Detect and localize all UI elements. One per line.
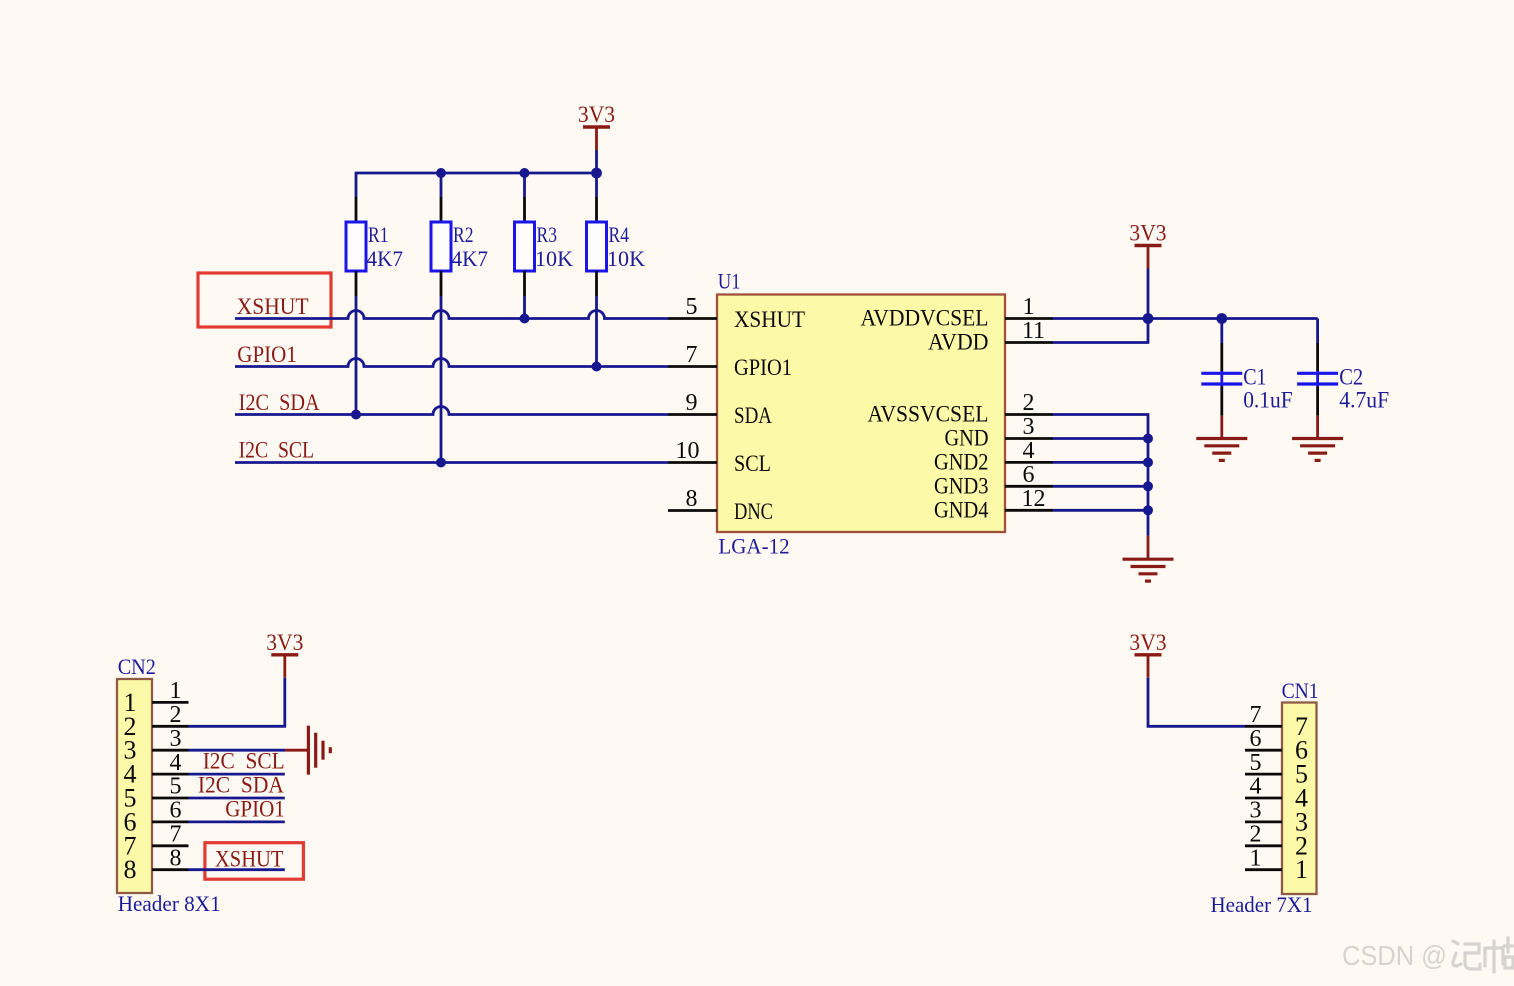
capacitor C1 [1220,343,1223,371]
CN2 pin 4 stub [152,773,189,776]
svg-text:GPIO1: GPIO1 [237,342,297,368]
CN1 pin 2 stub [1245,844,1282,847]
wire: R2 bottom lead [440,271,443,296]
connector CN1 body [1282,703,1317,895]
wire: U1 pin1 bus to C2 [1053,317,1318,320]
svg-text:C2: C2 [1339,365,1363,390]
net label XSHUT (red highlight box) [198,273,331,327]
wire: top lead of C2 [1316,319,1319,344]
svg-text:AVDD: AVDD [928,330,989,355]
CN1 pin 1 stub [1245,868,1282,871]
svg-text:1: 1 [170,678,182,704]
wire: top lead of C1 [1220,319,1223,344]
U1 pin 9 (SDA) stub [668,413,717,416]
node: junction GND bus [1143,481,1153,491]
U1 pin 5 (XSHUT) stub [668,317,717,320]
ground under C2 [1316,416,1319,439]
wire: 3V3 to CN1 pin 7 [1148,725,1245,726]
U1 pin 10 (SCL) stub [668,461,717,464]
svg-text:AVSSVCSEL: AVSSVCSEL [868,402,989,427]
svg-text:DNC: DNC [734,499,773,524]
svg-text:I2C SCL: I2C SCL [203,749,285,775]
CN1 pin 5 stub [1245,773,1282,776]
CN1 pin 7 stub [1245,725,1282,728]
svg-text:AVDDVCSEL: AVDDVCSEL [861,306,989,331]
svg-text:7: 7 [170,822,182,848]
node: junction GND bus [1143,457,1153,467]
node: junction XSHUT/R3 [520,314,530,324]
node: junction dot bus/R2 [436,168,446,178]
svg-text:GND: GND [945,426,989,451]
wire: CN2 pin6 GPIO1 stub [189,821,285,824]
svg-text:2: 2 [170,702,182,728]
svg-text:3V3: 3V3 [1129,221,1166,247]
svg-text:7: 7 [686,342,698,368]
node: junction dot bus/3V3/R4 [591,168,602,179]
svg-text:2: 2 [1023,390,1035,416]
svg-text:4.7uF: 4.7uF [1339,387,1389,412]
svg-text:10K: 10K [607,246,645,271]
wire: CN2 pin2 to 3V3 [189,725,287,728]
svg-text:4: 4 [170,750,182,776]
CN2 pin 3 stub [152,749,189,752]
wire: U1 pin11 to 3V3 riser [1053,341,1149,344]
wire: CN2 pin4 I2C_SCL stub [189,773,285,776]
resistor R3 10K [515,222,535,271]
resistor R1 4K7 [346,222,366,271]
U1 pin 12 (GND4) stub [1005,509,1053,512]
node: junction GND bus [1143,505,1153,515]
capacitor C2 [1316,343,1319,371]
svg-text:Header 8X1: Header 8X1 [118,891,221,916]
svg-text:6: 6 [1023,462,1035,488]
svg-text:3: 3 [1250,798,1262,824]
svg-text:6: 6 [170,798,182,824]
svg-text:3V3: 3V3 [266,630,303,656]
svg-text:GND3: GND3 [934,473,989,498]
connector CN2 body [117,679,152,893]
svg-text:3: 3 [170,726,182,752]
svg-text:XSHUT: XSHUT [237,294,309,320]
svg-text:0.1uF: 0.1uF [1243,387,1293,412]
svg-text:2: 2 [1250,822,1262,848]
wire: R4 top lead [595,173,598,197]
U1 pin 6 (GND3) stub [1005,485,1053,488]
svg-text:I2C SDA: I2C SDA [239,390,320,416]
U1 pin 7 (GPIO1) stub [668,365,717,368]
CN2 pin 8 stub [152,868,189,871]
wire: R1 top lead [355,173,358,197]
svg-text:GND2: GND2 [934,449,989,474]
svg-text:1: 1 [1295,855,1308,884]
svg-text:R4: R4 [609,222,630,247]
svg-text:XSHUT: XSHUT [734,307,805,332]
svg-text:4: 4 [1023,438,1035,464]
svg-text:CN1: CN1 [1282,678,1319,703]
wire: CN2 pin8 XSHUT stub [189,868,285,871]
svg-text:3V3: 3V3 [1129,630,1166,656]
wire: XSHUT net to U1 pin 5 (hops over R1,R2,R4) [235,311,668,319]
svg-text:10: 10 [676,438,700,464]
op-amp U1 body (LGA-12 sensor) [717,295,1005,533]
node: junction GPIO1/R4 [592,362,602,372]
svg-text:CSDN @: CSDN @ [1342,940,1447,971]
svg-text:3: 3 [1023,414,1035,440]
wire: I2C_SDA net to U1 pin 9 (hop over R2) [235,407,668,415]
CN2 pin 5 stub [152,797,189,800]
svg-text:8: 8 [686,486,698,512]
CN1 pin 4 stub [1245,797,1282,800]
CN2 pin 7 stub [152,844,189,847]
node: junction SCL/R2 [436,458,446,468]
svg-text:CN2: CN2 [118,654,156,679]
svg-text:5: 5 [170,774,182,800]
svg-text:8: 8 [124,855,137,884]
wire: top bus from R1 to 3V3 [355,172,597,175]
CN1 pin 3 stub [1245,821,1282,824]
svg-text:GPIO1: GPIO1 [734,355,792,380]
wire: R3 bottom lead [523,271,526,296]
svg-text:C1: C1 [1243,365,1266,390]
svg-text:R2: R2 [453,222,474,247]
svg-text:9: 9 [686,390,698,416]
wire: I2C_SCL net to U1 pin 10 [235,461,668,464]
svg-text:3V3: 3V3 [578,102,615,128]
svg-text:SCL: SCL [734,451,771,476]
node: junction SDA/R1 [351,410,361,420]
svg-text:4: 4 [1250,774,1262,800]
CN1 pin 6 stub [1245,749,1282,752]
svg-text:5: 5 [1250,750,1262,776]
svg-text:8: 8 [170,845,182,871]
wire: GPIO1 net to U1 pin 7 (hops over R1,R2) [235,359,668,367]
svg-text:5: 5 [686,294,698,320]
wire: R4 bottom lead [595,271,598,296]
wire: R2 top lead [440,173,443,197]
svg-text:10K: 10K [535,246,573,271]
resistor R2 4K7 [431,222,451,271]
wire: GND pin at y=486.3 to bus [1053,485,1148,488]
wire: CN2 pin3 to ground [189,749,286,752]
U1 pin 11 (AVDD) stub [1005,341,1053,344]
svg-text:7: 7 [1250,702,1262,728]
wire: R1 bottom lead [355,271,358,296]
wire: R3 top lead [523,173,526,197]
svg-text:I2C SDA: I2C SDA [198,773,284,799]
ground (rotated) at CN2 pin3 [285,749,308,752]
svg-text:R1: R1 [368,222,389,247]
U1 pin 2 (AVSSVCSEL) stub [1005,413,1053,416]
svg-text:12: 12 [1022,486,1046,512]
U1 pin 1 (AVDDVCSEL) stub [1005,317,1053,320]
svg-text:4K7: 4K7 [452,246,489,271]
svg-text:6: 6 [1250,726,1262,752]
svg-text:U1: U1 [718,268,741,293]
svg-text:LGA-12: LGA-12 [718,534,789,559]
CN2 pin 6 stub [152,821,189,824]
resistor R4 10K [587,222,607,271]
wire: U1 pin2 to GND bus [1053,415,1148,536]
U1 pin 8 (DNC) stub [668,509,717,512]
net label XSHUT at CN2 pin8 (red highlight box) [205,843,304,880]
CN2 pin 2 stub [152,725,189,728]
node: junction dot bus/R3 [520,168,530,178]
wire: GND pin at y=462.4 to bus [1053,461,1148,464]
U1 pin 4 (GND2) stub [1005,461,1053,464]
svg-text:GND4: GND4 [934,497,989,522]
svg-text:R3: R3 [537,222,558,247]
ground under C1 [1220,416,1223,439]
U1 pin 3 (GND) stub [1005,437,1053,440]
wire: GND pin at y=438.5 to bus [1053,437,1148,440]
svg-text:1: 1 [1023,294,1035,320]
svg-text:SDA: SDA [734,403,772,428]
node: junction 3V3/pin1/pin11 [1143,313,1154,324]
svg-text:11: 11 [1022,318,1045,344]
svg-text:Header 7X1: Header 7X1 [1211,892,1313,917]
svg-text:1: 1 [1250,845,1262,871]
wire: CN2 pin5 I2C_SDA stub [189,797,285,800]
svg-text:4K7: 4K7 [367,246,404,271]
svg-text:GPIO1: GPIO1 [225,796,285,822]
CN2 pin 1 stub [152,701,189,704]
wire: GND pin at y=510.3 to bus [1053,509,1148,512]
node: junction pin1 bus / C1 [1216,313,1227,324]
ground under U1 GND bus [1147,536,1150,560]
node: junction GND bus [1143,434,1153,444]
svg-text:I2C SCL: I2C SCL [239,437,315,463]
